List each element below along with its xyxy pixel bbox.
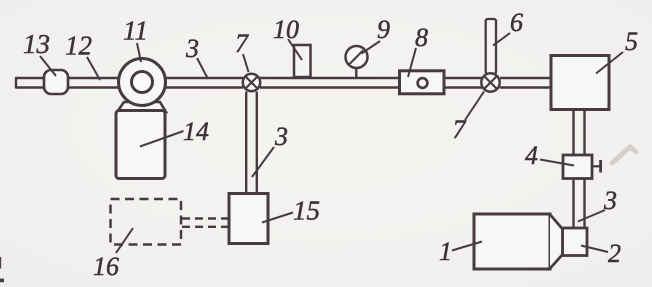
leader 4 (540, 160, 574, 166)
svg-text:7: 7 (453, 115, 467, 144)
component 1 cylinder body (474, 214, 550, 269)
valve 7b body (481, 73, 499, 91)
component 11 blower inner circle (132, 72, 153, 93)
valve 7b cross (484, 76, 497, 89)
component 14 vessel neck (117, 102, 166, 112)
leader 8 (408, 48, 416, 77)
wire vertical pipe below valve 7a (246, 92, 257, 194)
component 13 fitting (44, 70, 68, 94)
svg-text:12: 12 (65, 31, 92, 61)
wire pipe left end cap (15, 77, 17, 89)
svg-text:8: 8 (415, 23, 428, 52)
gauge 9 needle (349, 51, 364, 66)
component 10 port (294, 45, 311, 77)
svg-text:2: 2 (608, 239, 621, 268)
svg-text:10: 10 (273, 15, 299, 44)
svg-text:11: 11 (123, 16, 148, 46)
leader 2 (581, 246, 608, 253)
leader 13 (40, 56, 56, 76)
gauge 9 dial (346, 46, 368, 68)
component 4 handle (599, 160, 602, 173)
svg-text:3: 3 (274, 122, 288, 151)
component 1 cone (550, 215, 563, 269)
wire main pipe bottom line (16, 86, 551, 88)
leader 3 top (197, 58, 208, 79)
wire main pipe top line (16, 77, 551, 79)
svg-text:3: 3 (185, 34, 199, 63)
component 14 vessel body (116, 111, 165, 179)
svg-text:5: 5 (625, 27, 638, 56)
leader 14 (140, 131, 184, 147)
wire vertical pipe below valve 4 (574, 179, 585, 229)
svg-text:6: 6 (510, 8, 523, 37)
leader 16 (116, 228, 133, 253)
component 8 flow meter body (400, 71, 445, 94)
wire dashed connector top (182, 217, 228, 219)
leader 11 (137, 43, 141, 62)
margin glyph fragment left edge (0, 257, 1, 269)
component 4 stem (592, 165, 600, 167)
svg-text:9: 9 (377, 15, 390, 44)
svg-text:4: 4 (525, 141, 538, 170)
component 16 dashed box (111, 199, 182, 245)
wire vent pipe 6 (486, 19, 496, 74)
component 15 box (229, 194, 268, 244)
svg-text:1: 1 (439, 237, 452, 266)
svg-text:15: 15 (293, 196, 320, 226)
svg-text:13: 13 (23, 29, 50, 59)
component 2 connector box (563, 228, 588, 256)
faint pencil mark right (612, 147, 636, 163)
leader 9 (362, 41, 381, 54)
leader 1 (452, 242, 482, 251)
leader 12 (87, 57, 100, 80)
svg-text:14: 14 (183, 117, 209, 146)
component 4 valve body (563, 155, 592, 179)
leader 6 (493, 33, 510, 46)
leader 3 mid (252, 147, 274, 177)
leader 7b (465, 92, 484, 121)
gauge 9 stem (355, 66, 357, 77)
leader 15 (262, 213, 293, 223)
leader 3 bottom (578, 210, 605, 222)
wire dashed connector bottom (182, 226, 228, 228)
margin mark bottom left (0, 279, 4, 283)
svg-text:16: 16 (93, 252, 119, 281)
leader 10 (288, 39, 302, 60)
valve 7a cross (245, 76, 257, 88)
svg-text:3: 3 (603, 186, 617, 215)
wire vertical pipe below chamber 5 (574, 110, 585, 156)
component 11 blower outer circle (119, 59, 166, 106)
component 5 chamber (551, 56, 609, 110)
component 8 flow meter circle (418, 78, 428, 88)
valve 7a body (243, 74, 260, 91)
leader 5 (596, 52, 623, 74)
svg-text:7: 7 (235, 29, 249, 58)
leader 7a (243, 54, 249, 72)
